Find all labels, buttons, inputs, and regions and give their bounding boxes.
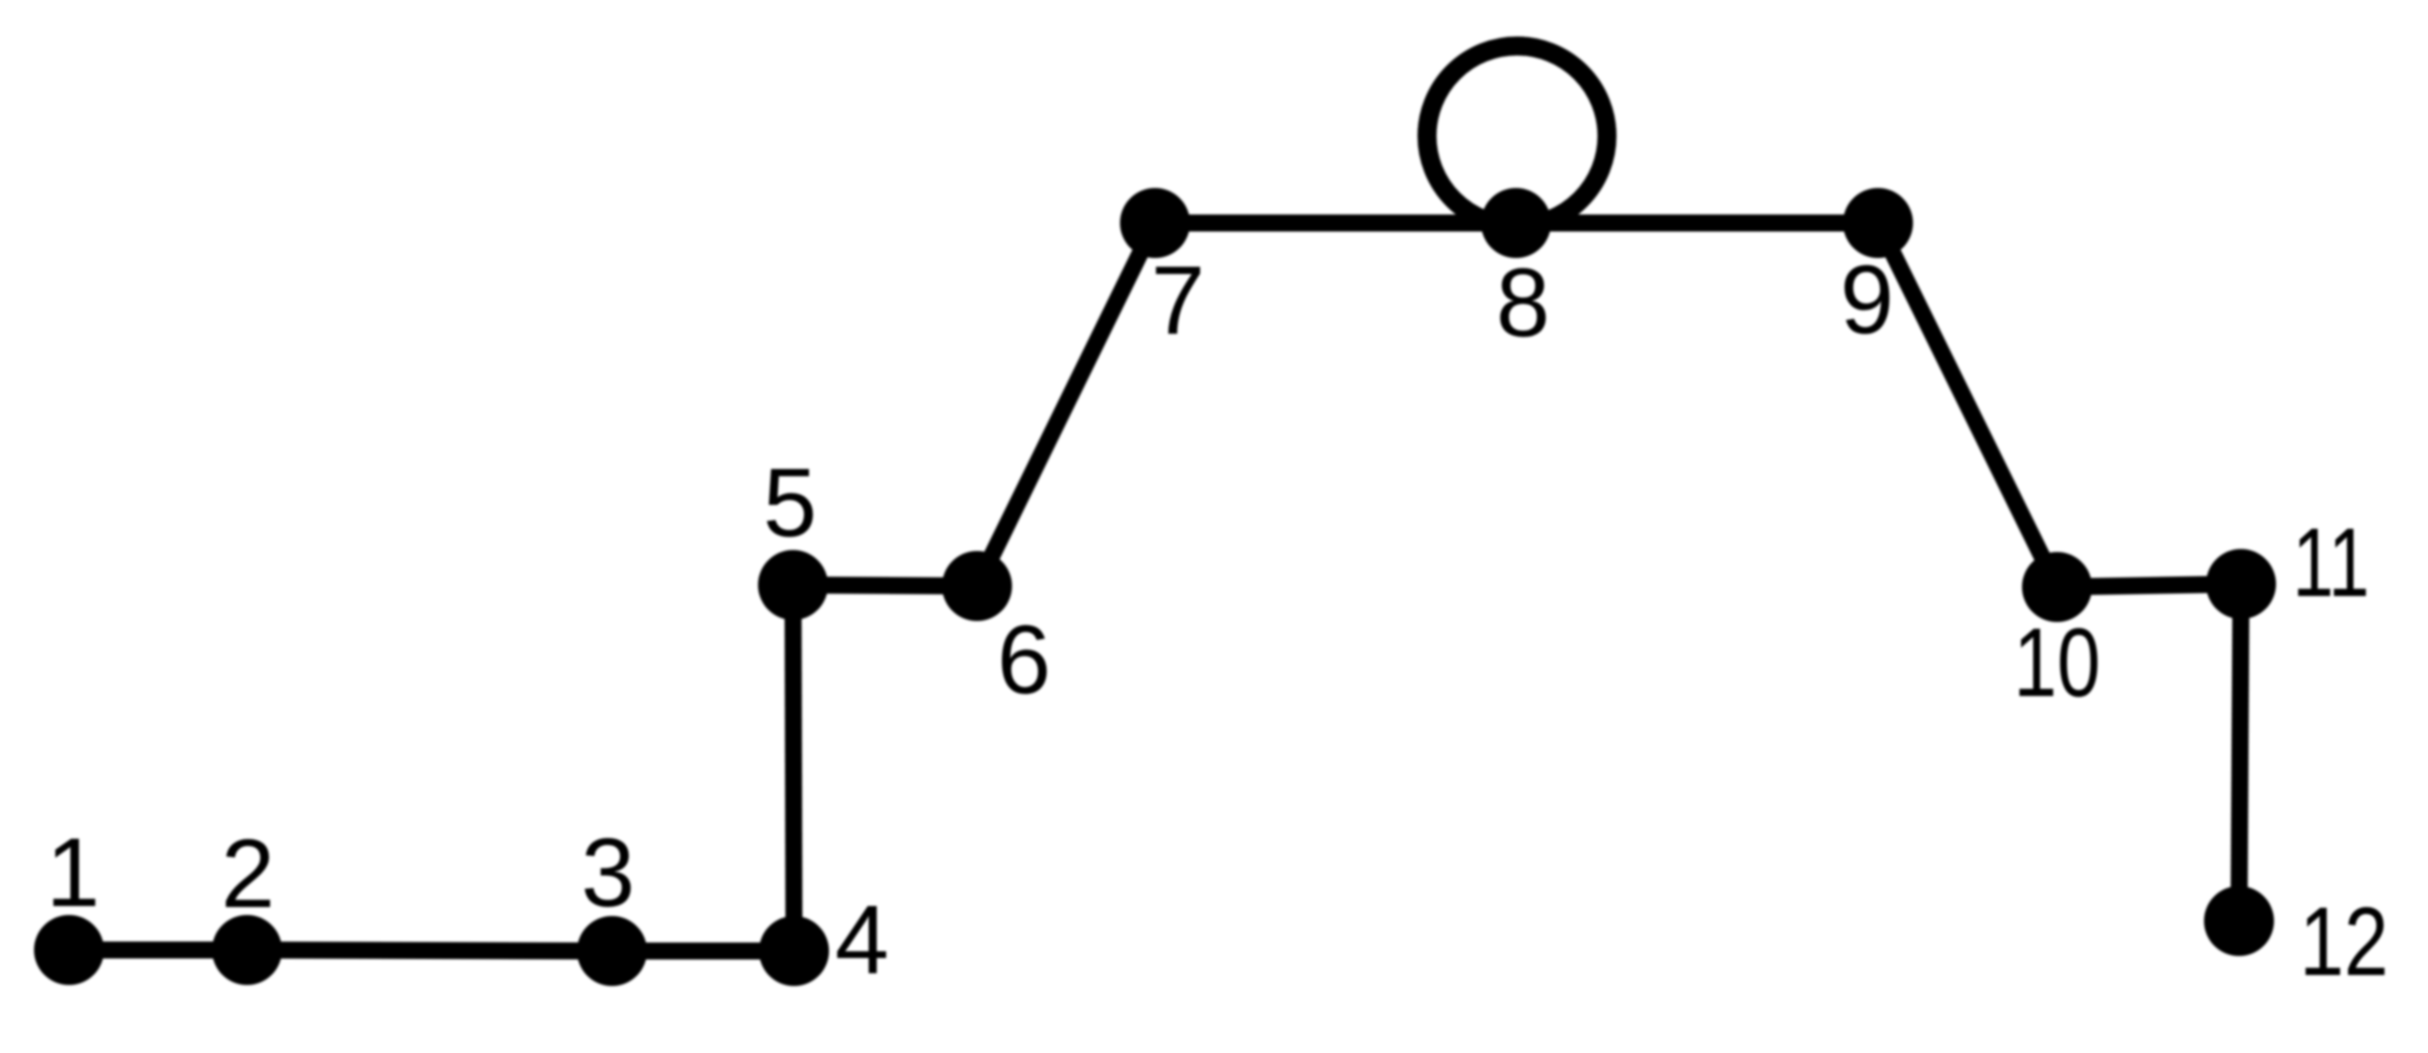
svg-text:8: 8 — [1496, 248, 1550, 357]
node 6 — [942, 551, 1012, 621]
svg-text:6: 6 — [997, 605, 1051, 714]
wire edge 9-10 — [1878, 223, 2057, 587]
svg-text:5: 5 — [763, 448, 817, 557]
wire edge 1-2 — [69, 942, 247, 959]
node 9 — [1843, 188, 1913, 258]
node 11 — [2206, 549, 2276, 619]
svg-text:7: 7 — [1151, 246, 1205, 355]
wire edge 10-11 — [2057, 584, 2241, 587]
wire edge 2-3 — [247, 950, 612, 951]
node 10 — [2022, 552, 2092, 622]
svg-text:10: 10 — [2014, 608, 2101, 717]
wire edge 5-6 — [793, 585, 977, 586]
node 5 — [758, 550, 828, 620]
wire edge 4-5 — [793, 585, 794, 951]
node 2 — [212, 915, 282, 985]
svg-text:2: 2 — [221, 819, 275, 928]
svg-text:1: 1 — [46, 818, 100, 927]
node 4 — [759, 916, 829, 986]
node 8 — [1481, 188, 1551, 258]
wire edge 7-8 — [1155, 215, 1516, 232]
wire edge 6-7 — [977, 223, 1155, 586]
wire edge 3-4 — [612, 943, 794, 960]
node 1 — [34, 915, 104, 985]
node 3 — [577, 916, 647, 986]
svg-text:9: 9 — [1840, 245, 1894, 354]
node 7 — [1120, 188, 1190, 258]
svg-text:3: 3 — [581, 818, 635, 927]
svg-text:4: 4 — [835, 885, 889, 994]
svg-text:12: 12 — [2300, 887, 2389, 996]
wire edge 8-9 — [1516, 215, 1878, 232]
svg-text:11: 11 — [2293, 508, 2370, 617]
node 12 — [2204, 886, 2274, 956]
wire edge 11-12 — [2239, 584, 2241, 921]
self-loop at node 8 — [1427, 46, 1607, 226]
